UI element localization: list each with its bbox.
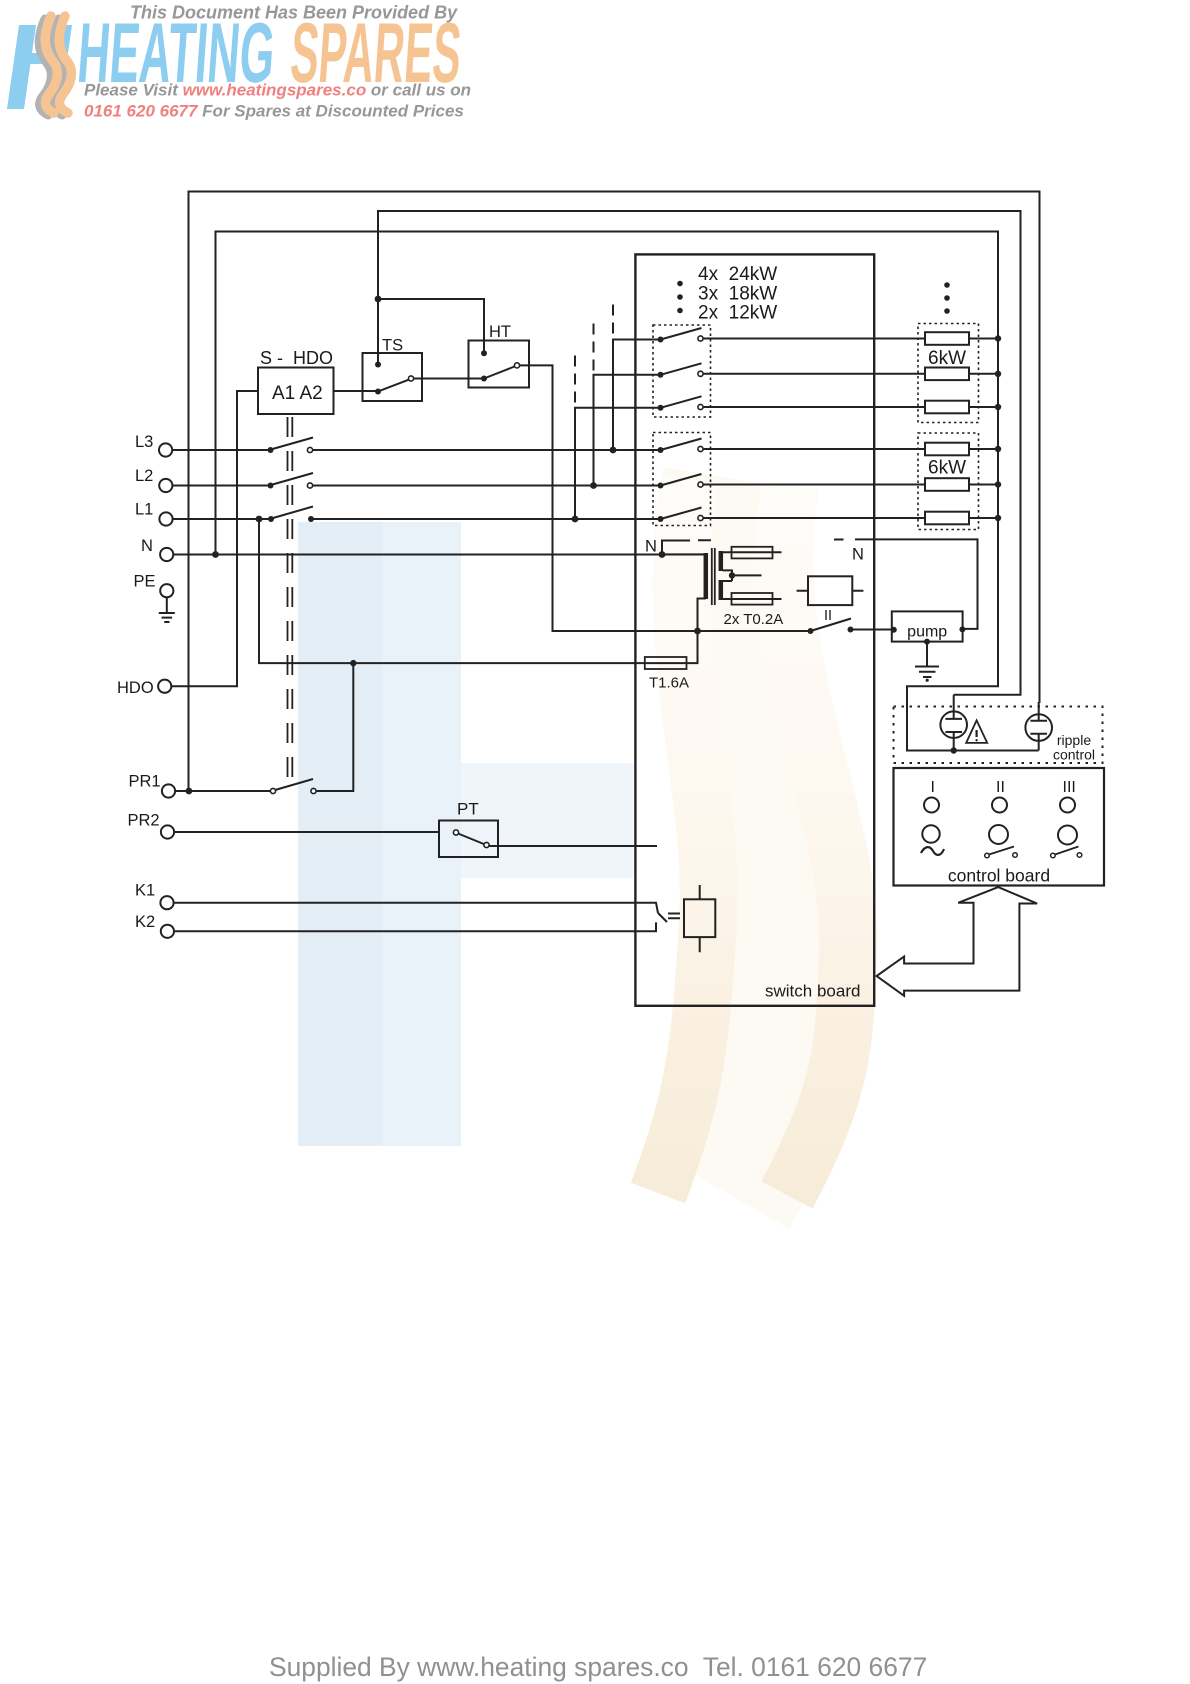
fuse F1 T1.6A — [645, 657, 687, 669]
contactor contact 2 blade — [661, 363, 702, 375]
contactor group 2 dotted box — [653, 433, 711, 526]
resistor heater E3 6kW — [925, 401, 969, 414]
wire A2 to TS — [334, 390, 379, 392]
resistor heater E1 6kW — [925, 332, 969, 345]
node L2 contactor tap — [590, 482, 597, 489]
switch symbol II — [985, 847, 1018, 858]
svg-text:A1 A2: A1 A2 — [272, 383, 323, 404]
pin pump ground — [924, 639, 930, 645]
switch S-L3 blade — [273, 438, 314, 450]
ripple receiver lamp L1 — [940, 695, 967, 751]
node heater bus 4 — [995, 446, 1001, 452]
wire N broken link to pump — [834, 539, 978, 629]
svg-text:S - HDO: S - HDO — [260, 348, 333, 368]
switch PT contacts — [453, 830, 489, 848]
svg-text:3x 18kW: 3x 18kW — [698, 284, 777, 305]
node TS top pin — [375, 362, 381, 368]
svg-text:L3: L3 — [135, 433, 153, 451]
bullet dots heater list — [944, 282, 950, 314]
contactor contact 3 blade — [661, 396, 702, 408]
node L3 contactor tap — [610, 447, 617, 454]
switch II blade — [811, 619, 852, 632]
wire N net to heater bus and ripple return (third loop) — [216, 232, 1039, 751]
svg-text:PR2: PR2 — [128, 812, 160, 830]
pin pump left — [891, 627, 897, 633]
svg-text:N: N — [852, 546, 864, 564]
switch S-PR1 blade — [275, 779, 313, 790]
logo letter H — [7, 25, 72, 109]
wire L2 row — [172, 485, 660, 487]
node heater bus 6 — [995, 515, 1001, 521]
relay coil K — [684, 899, 715, 937]
svg-text:N: N — [645, 538, 657, 556]
switch symbol III — [1051, 847, 1082, 858]
node heater bus 3 — [995, 404, 1001, 410]
wire heater row 1 — [703, 338, 999, 340]
wire HT top feed — [378, 299, 484, 353]
switch II contact — [848, 627, 854, 633]
wire heater row 2 — [703, 373, 999, 375]
wire II to pump — [851, 629, 894, 631]
svg-text:I: I — [931, 779, 935, 796]
contactor group 1 dotted box — [653, 325, 711, 417]
indicator lamp II large — [989, 825, 1008, 844]
box control board — [894, 768, 1105, 886]
switch K blade — [658, 913, 667, 922]
fuse F2 T0.2A — [732, 547, 773, 559]
svg-text:HDO: HDO — [117, 679, 154, 697]
thermostat HT box — [469, 341, 530, 388]
contactor contact 2 fixed contact — [698, 371, 703, 376]
switch S-PR1 contacts — [270, 788, 316, 793]
suppressor box — [808, 576, 852, 605]
node TS junction — [375, 296, 382, 303]
wire L3 row — [172, 449, 660, 451]
box ripple control dotted — [894, 707, 1103, 764]
contactor contact 6 fixed contact — [698, 515, 703, 520]
indicator lamp III small — [1060, 798, 1075, 813]
contactor contact 4 blade — [661, 439, 702, 451]
svg-text:Please Visit www.heatingspares: Please Visit www.heatingspares.co or cal… — [84, 81, 471, 100]
fuse F3 T0.2A — [732, 593, 773, 605]
resistor heater E4 6kW — [925, 443, 969, 456]
switch S-L2 pivot — [268, 483, 274, 489]
contactor contact 1 fixed contact — [698, 336, 703, 341]
svg-text:L1: L1 — [135, 500, 153, 518]
node fuse F1 junction — [694, 628, 701, 635]
svg-text:6kW: 6kW — [928, 458, 966, 479]
svg-text:pump: pump — [907, 623, 947, 640]
box PT — [439, 821, 498, 858]
wire N row — [173, 554, 704, 556]
contactor contact 1 pivot — [658, 337, 664, 343]
node HT top pin — [481, 350, 487, 356]
relay S-HDO box — [258, 368, 334, 415]
wire PT output — [489, 845, 657, 847]
logo flame shadow — [39, 19, 65, 115]
wire L1 row — [173, 518, 661, 520]
switch S-L1 blade — [273, 507, 313, 519]
svg-text:PE: PE — [134, 573, 156, 591]
wire TR center tap — [732, 574, 762, 576]
svg-text:control board: control board — [948, 866, 1050, 886]
bullet dots power list — [677, 281, 683, 314]
warning triangle — [966, 720, 987, 743]
contactor contact 3 fixed contact — [698, 404, 703, 409]
dashed control link K2 phase — [593, 324, 595, 372]
transformer TR secondary windings — [719, 551, 724, 600]
wire contactor K1 feed from L3 — [613, 340, 661, 451]
resistor heater E2 6kW — [925, 368, 969, 381]
terminal L1 — [159, 512, 172, 525]
wire TS to HT — [413, 378, 484, 380]
indicator lamp II small — [992, 798, 1007, 813]
node L1 tap — [256, 516, 263, 523]
heater group 2 dotted box — [918, 433, 979, 530]
switch S-L1 pivot — [268, 516, 274, 522]
contactor contact 6 blade — [661, 508, 702, 520]
ripple receiver lamp L2 — [1025, 702, 1052, 751]
watermark blue H bar — [298, 522, 633, 1146]
dashed control link K3 phase — [574, 356, 576, 405]
contactor contact 5 pivot — [658, 483, 664, 489]
svg-text:T1.6A: T1.6A — [649, 675, 689, 692]
mechanical coupling S-HDO dashed link — [288, 417, 293, 779]
svg-text:K2: K2 — [135, 913, 155, 931]
wire heater row 4 — [703, 448, 999, 450]
svg-text:N: N — [141, 537, 153, 555]
indicator lamp III large — [1058, 826, 1077, 845]
switch S-L2 blade — [273, 473, 314, 485]
svg-text:2x 12kW: 2x 12kW — [698, 303, 777, 324]
switch II pivot — [808, 628, 814, 634]
wire TS top feed — [377, 299, 379, 365]
contactor contact 4 pivot — [658, 447, 664, 453]
svg-text:0161 620 6677 For Spares at Di: 0161 620 6677 For Spares at Discounted P… — [84, 102, 464, 121]
wire TS net to ripple lamp L1 (second loop) — [378, 211, 1021, 695]
svg-text:TS: TS — [382, 337, 403, 355]
switch TS contact — [408, 376, 413, 381]
node heater bus 5 — [995, 481, 1001, 487]
wire PR1 net to ripple lamp L2 (outer loop) — [189, 192, 1040, 792]
resistor heater E5 6kW — [925, 478, 969, 491]
svg-text:L2: L2 — [135, 467, 153, 485]
wire TR primary return — [698, 599, 706, 632]
logo flame S — [45, 16, 71, 113]
wire K1 row — [173, 903, 658, 913]
node lamp L1 return — [951, 747, 957, 753]
node N transformer tap — [659, 551, 666, 558]
svg-text:Supplied By www.heating spares: Supplied By www.heating spares.co Tel. 0… — [269, 1652, 927, 1682]
node PR1 junction — [350, 660, 356, 666]
wire contactor K3 feed from L1 — [575, 408, 661, 519]
switch HT pivot — [481, 376, 487, 382]
contactor contact 4 fixed contact — [698, 446, 703, 451]
svg-text:PR1: PR1 — [129, 773, 161, 791]
terminal K2 — [161, 925, 174, 938]
pin pump right — [959, 626, 965, 632]
terminal N — [160, 548, 173, 561]
transformer TR primary winding — [704, 553, 709, 599]
svg-text:K1: K1 — [135, 881, 155, 899]
wire heater row 3 — [703, 406, 999, 408]
switch HT contact — [514, 363, 519, 368]
node heater bus 1 — [995, 335, 1001, 341]
terminal HDO — [158, 680, 171, 693]
heater group 1 dotted box — [918, 324, 979, 423]
switch TS pivot — [375, 389, 381, 395]
resistor heater E6 6kW — [925, 512, 969, 525]
transformer TR core — [712, 548, 715, 605]
svg-text:PT: PT — [457, 800, 479, 819]
contactor contact 6 pivot — [658, 516, 664, 522]
wire contactor K2 feed from L2 — [594, 375, 661, 486]
node TR center tap — [729, 572, 735, 578]
contactor contact 5 blade — [661, 474, 702, 486]
indicator lamp I small — [924, 798, 939, 813]
terminal PR1 — [162, 784, 175, 797]
dashed control link K1 phase — [612, 305, 614, 337]
wire PR1 row — [175, 663, 353, 791]
svg-text:control: control — [1053, 747, 1095, 763]
terminal L3 — [159, 443, 172, 456]
switch S-L3 pivot — [268, 447, 274, 453]
switch S-L1 contact — [308, 516, 314, 522]
switch HT blade — [484, 366, 517, 379]
contactor contact 5 fixed contact — [698, 482, 703, 487]
block arrow control board to switch board — [877, 887, 1038, 996]
equals sign — [668, 914, 680, 919]
switch S-L3 contact — [307, 447, 312, 452]
contactor contact 2 pivot — [658, 372, 664, 378]
transformer TR primary lead — [662, 553, 704, 555]
contactor contact 1 blade — [661, 328, 702, 340]
watermark orange flame — [658, 480, 848, 1195]
wire HDO to relay coil A1 — [171, 391, 258, 686]
terminal K1 — [160, 896, 173, 909]
wire PR2 row — [174, 831, 440, 833]
box pump M1 — [892, 611, 963, 641]
wire L1 tap to fuse F1 and II row — [259, 519, 698, 663]
box switch board — [635, 254, 874, 1005]
node N bracket — [662, 540, 711, 554]
wire K2 row — [174, 922, 657, 931]
wire HT output to II row — [519, 365, 811, 631]
node N tap — [212, 551, 219, 558]
svg-text:II: II — [824, 608, 832, 624]
wire heater row 5 — [703, 484, 999, 486]
switch PT blade — [458, 834, 485, 845]
node PR1 terminal junction — [186, 788, 193, 795]
terminal PE — [160, 584, 173, 597]
indicator lamp I large — [922, 825, 939, 842]
svg-text:6kW: 6kW — [928, 348, 966, 369]
svg-text:2x T0.2A: 2x T0.2A — [724, 611, 784, 628]
node heater bus 2 — [995, 371, 1001, 377]
svg-text:III: III — [1063, 779, 1076, 796]
ground PE — [159, 597, 175, 622]
svg-text:switch board: switch board — [765, 982, 860, 1001]
wire heater row 6 — [703, 517, 999, 519]
terminal PR2 — [161, 825, 174, 838]
node L1 contactor tap — [572, 516, 579, 523]
terminal L2 — [159, 479, 172, 492]
AC sine symbol — [921, 847, 944, 855]
svg-text:4x 24kW: 4x 24kW — [698, 264, 777, 285]
svg-text:HT: HT — [489, 323, 511, 341]
ground pump — [915, 642, 939, 677]
switch S-L2 contact — [307, 483, 312, 488]
thermostat TS box — [363, 353, 423, 401]
contactor contact 3 pivot — [658, 405, 664, 411]
switch TS blade — [378, 379, 411, 392]
svg-text:II: II — [996, 779, 1005, 796]
